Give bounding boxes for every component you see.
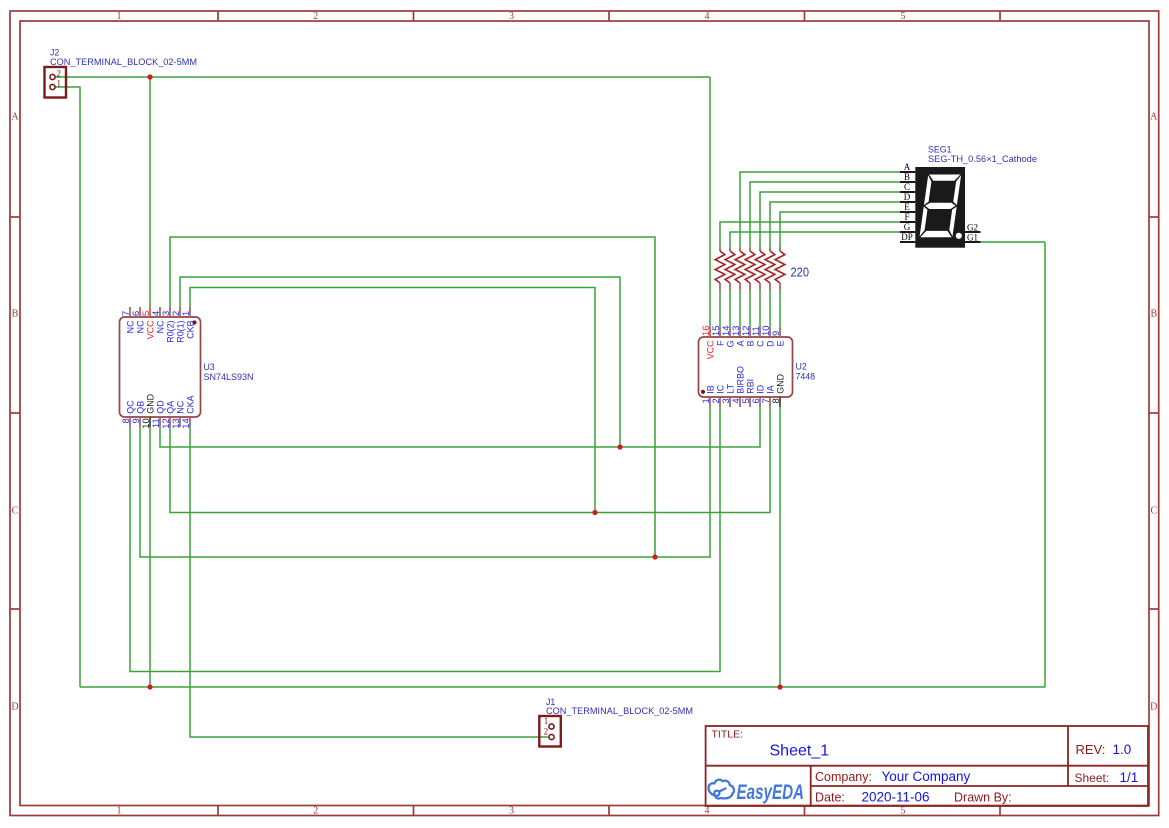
resistor R3 — [739, 248, 741, 251]
svg-text:1: 1 — [180, 311, 191, 316]
svg-text:TITLE:: TITLE: — [712, 729, 744, 741]
svg-text:SEG-TH_0.56×1_Cathode: SEG-TH_0.56×1_Cathode — [928, 154, 1037, 164]
svg-text:R0(1): R0(1) — [175, 320, 185, 342]
svg-text:4: 4 — [705, 11, 710, 22]
U2 top pin stubs — [710, 327, 780, 337]
svg-text:VCC: VCC — [145, 320, 155, 339]
wire QC net U3 pin8 to U2 pin2 — [130, 407, 720, 672]
svg-text:8: 8 — [770, 398, 781, 403]
svg-text:QA: QA — [165, 401, 175, 414]
resistor R1 — [719, 248, 721, 251]
J2 pin 2 circle — [50, 74, 55, 79]
svg-text:1: 1 — [117, 806, 122, 817]
svg-text:E: E — [775, 340, 785, 346]
svg-text:5: 5 — [901, 806, 906, 817]
svg-text:2: 2 — [544, 727, 549, 737]
svg-text:7448: 7448 — [796, 371, 816, 381]
wire GND from J2 pin1 — [56, 87, 81, 687]
SEG1 seven-segment digit 8 — [919, 175, 961, 238]
IC U2 body — [699, 337, 793, 397]
junction GND at U3 pin10 — [147, 684, 152, 689]
wire QB net U3 pin9 to U2 pin1 — [140, 407, 710, 557]
svg-text:CON_TERMINAL_BLOCK_02-5MM: CON_TERMINAL_BLOCK_02-5MM — [50, 57, 197, 67]
resistor R2 — [729, 248, 731, 251]
svg-text:2020-11-06: 2020-11-06 — [862, 790, 930, 805]
svg-text:C: C — [12, 506, 19, 517]
svg-text:220: 220 — [791, 265, 810, 280]
svg-text:VCC: VCC — [705, 340, 715, 359]
resistor R4 — [749, 248, 751, 251]
IC U3 body — [120, 317, 201, 417]
svg-text:QD: QD — [155, 400, 165, 413]
svg-text:G: G — [725, 340, 735, 347]
svg-text:E: E — [904, 202, 910, 212]
svg-text:G1: G1 — [967, 232, 978, 242]
svg-text:QC: QC — [125, 400, 135, 414]
svg-text:G2: G2 — [967, 222, 978, 232]
svg-text:4: 4 — [705, 806, 710, 817]
SEG1 decimal point dot — [956, 233, 962, 239]
svg-text:CON_TERMINAL_BLOCK_02-5MM: CON_TERMINAL_BLOCK_02-5MM — [546, 706, 693, 716]
svg-text:DP: DP — [901, 232, 913, 242]
svg-text:Drawn By:: Drawn By: — [954, 791, 1012, 805]
svg-text:Company:: Company: — [815, 770, 872, 784]
svg-text:B: B — [745, 340, 755, 346]
svg-text:1/1: 1/1 — [1120, 770, 1139, 785]
svg-text:2: 2 — [57, 69, 62, 79]
svg-text:EasyEDA: EasyEDA — [737, 781, 805, 804]
svg-text:C: C — [1150, 506, 1157, 517]
svg-text:U2: U2 — [796, 362, 807, 372]
svg-text:SN74LS93N: SN74LS93N — [204, 372, 254, 382]
display SEG1 body — [915, 167, 965, 248]
wire R0(1) branch U3 pin2 — [180, 277, 620, 447]
wire segment D — [770, 202, 900, 248]
J1 pin 1 circle — [549, 724, 554, 729]
resistor R6 — [769, 248, 771, 251]
wire VCC rail from J2 pin2 to U2 pin16 — [56, 76, 711, 78]
wire segment C — [760, 192, 900, 248]
svg-text:IB: IB — [705, 385, 715, 393]
svg-text:1: 1 — [117, 11, 122, 22]
svg-text:SEG1: SEG1 — [928, 144, 952, 154]
U3 pin1 marker dot — [192, 320, 196, 324]
svg-text:J2: J2 — [50, 48, 59, 58]
wire U2 pin8 GND drop — [779, 407, 781, 687]
svg-text:R0(2): R0(2) — [165, 320, 175, 342]
svg-text:9: 9 — [770, 331, 781, 336]
svg-text:1: 1 — [57, 79, 62, 89]
svg-text:BIRBO: BIRBO — [735, 366, 745, 394]
svg-text:F: F — [904, 212, 909, 222]
svg-text:RBI: RBI — [745, 379, 755, 394]
svg-text:1.0: 1.0 — [1113, 742, 1132, 757]
wire CKA net U3 pin14 to J1 pin2 — [190, 427, 548, 737]
svg-text:3: 3 — [509, 806, 514, 817]
svg-text:3: 3 — [509, 11, 514, 22]
svg-text:D: D — [765, 341, 775, 347]
svg-text:IA: IA — [765, 385, 775, 393]
svg-text:14: 14 — [180, 418, 191, 428]
wire segment E — [780, 212, 900, 248]
wire R0(2) branch U3 pin3 — [170, 237, 655, 557]
wire QD net U3 pin11 to U2 pin6 — [160, 407, 760, 447]
junction QA/CKB — [592, 510, 597, 515]
svg-text:ID: ID — [755, 385, 765, 394]
wire CKB branch U3 pin1 — [190, 288, 595, 513]
svg-text:1: 1 — [544, 716, 549, 726]
svg-text:LT: LT — [725, 383, 735, 393]
wire VCC drop to U3 pin5 — [149, 77, 151, 307]
svg-text:Sheet_1: Sheet_1 — [770, 743, 830, 760]
U2 bottom pin stubs — [710, 397, 780, 407]
resistor R5 — [759, 248, 761, 251]
wire QA net U3 pin12 to U2 pin7 — [170, 407, 770, 513]
wire segment B — [750, 182, 900, 248]
svg-text:D: D — [11, 702, 18, 713]
J2 pin 1 circle — [50, 84, 55, 89]
svg-text:D: D — [904, 192, 911, 202]
svg-text:C: C — [755, 340, 765, 347]
connector J1 body — [539, 716, 561, 747]
svg-text:2: 2 — [313, 806, 318, 817]
wire SEG1 G1 to GND rail — [981, 241, 1046, 243]
svg-text:A: A — [11, 112, 19, 123]
svg-text:NC: NC — [125, 320, 135, 333]
svg-text:5: 5 — [901, 11, 906, 22]
wire segment G — [730, 232, 900, 248]
svg-text:Date:: Date: — [815, 791, 845, 805]
resistor R7 — [779, 248, 781, 251]
svg-text:GND: GND — [775, 374, 785, 394]
svg-text:IC: IC — [715, 384, 725, 393]
svg-text:B: B — [904, 172, 910, 182]
U3 top pin stubs — [130, 307, 190, 317]
wire U3 pin10 GND drop — [149, 427, 151, 687]
svg-text:GND: GND — [145, 394, 155, 414]
svg-text:Sheet:: Sheet: — [1075, 771, 1110, 785]
wire VCC drop to U2 pin16 — [709, 77, 711, 327]
svg-text:CKA: CKA — [185, 395, 195, 413]
wire segment A from R to SEG1 — [740, 172, 900, 248]
svg-text:NC: NC — [175, 400, 185, 413]
svg-text:CKB: CKB — [185, 320, 195, 338]
EasyEDA logo cloud — [709, 780, 735, 799]
U3 bottom pin stubs — [130, 417, 190, 427]
svg-text:A: A — [904, 162, 911, 172]
svg-text:REV:: REV: — [1076, 742, 1106, 757]
wire GND bottom rail — [80, 686, 1045, 688]
svg-text:C: C — [904, 182, 910, 192]
svg-text:F: F — [715, 340, 725, 346]
svg-text:QB: QB — [135, 401, 145, 414]
title block outline — [706, 726, 1148, 806]
svg-text:A: A — [735, 340, 745, 346]
svg-text:NC: NC — [155, 320, 165, 333]
svg-text:2: 2 — [313, 11, 318, 22]
U2 pin1 marker dot — [701, 390, 705, 394]
connector J2 body — [45, 67, 67, 98]
junction QD/R0(1) — [617, 444, 622, 449]
svg-text:D: D — [1150, 702, 1157, 713]
SEG1 left pin lines — [900, 172, 981, 242]
svg-text:B: B — [1150, 309, 1157, 320]
svg-text:NC: NC — [135, 320, 145, 333]
J1 pin 2 circle — [549, 734, 554, 739]
junction QB/R0(2) — [652, 554, 657, 559]
svg-text:Your Company: Your Company — [882, 769, 971, 784]
wire segment F — [720, 222, 900, 248]
wires resistors to U2 outputs — [719, 290, 721, 327]
svg-text:A: A — [1150, 112, 1158, 123]
svg-text:G: G — [904, 222, 911, 232]
svg-text:U3: U3 — [204, 362, 215, 372]
junction GND at U2 pin8 — [777, 684, 782, 689]
wire GND rail up to SEG1 G1 — [1044, 242, 1046, 687]
svg-text:B: B — [12, 309, 19, 320]
junction VCC at U3 pin5 column — [147, 74, 152, 79]
